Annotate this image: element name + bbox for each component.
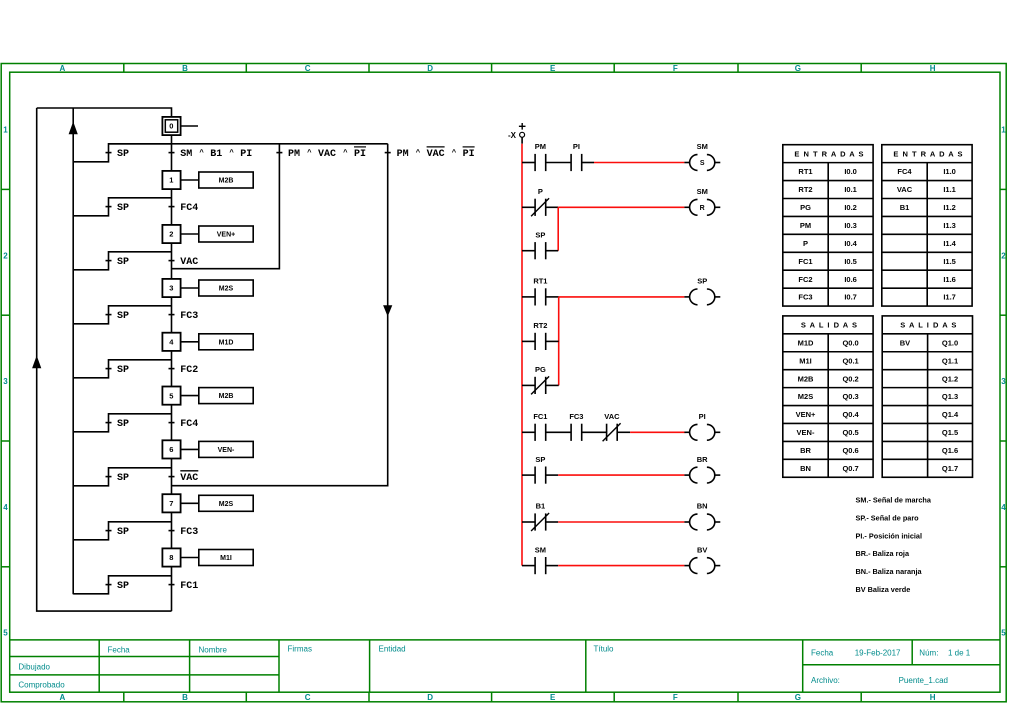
- contact FC3: [571, 424, 582, 441]
- svg-text:Q0.6: Q0.6: [842, 446, 858, 455]
- svg-text:E N T R A D A S: E N T R A D A S: [893, 149, 963, 158]
- wire rung 6 stub: [546, 384, 559, 386]
- wire rung 10 red: [558, 565, 684, 567]
- wire rung 7 red: [630, 431, 685, 433]
- svg-text:I1.5: I1.5: [943, 257, 956, 266]
- svg-text:FC3: FC3: [180, 527, 198, 538]
- svg-text:FC1: FC1: [180, 581, 198, 592]
- wire rung 8 red: [558, 474, 684, 476]
- contact PG: [531, 376, 549, 394]
- wire: left return line outer: [37, 108, 172, 611]
- svg-text:Comprobado: Comprobado: [18, 680, 65, 689]
- svg-text:Q0.1: Q0.1: [842, 356, 858, 365]
- wire rung 4 stub: [546, 296, 559, 298]
- svg-text:M2B: M2B: [219, 393, 234, 400]
- svg-text:BV Baliza verde: BV Baliza verde: [856, 585, 911, 594]
- svg-text:BN: BN: [800, 464, 811, 473]
- svg-text:SM: SM: [697, 142, 708, 151]
- svg-text:Fecha: Fecha: [108, 646, 131, 655]
- coil SM (R): [684, 199, 720, 215]
- wire rung 4 lead: [522, 296, 535, 298]
- svg-text:M1I: M1I: [220, 555, 232, 562]
- svg-text:M1D: M1D: [219, 339, 234, 346]
- wire: step 3 to action box: [181, 287, 199, 289]
- wire rung 5 lead: [522, 340, 535, 342]
- svg-text:PM: PM: [535, 142, 546, 151]
- svg-text:FC4: FC4: [180, 419, 198, 430]
- wire: SP loop branch 2: [73, 198, 171, 216]
- transition VAC (t7): [169, 471, 199, 484]
- svg-text:1: 1: [169, 176, 173, 185]
- transition SP (loop 3): [106, 257, 130, 268]
- svg-text:3: 3: [169, 284, 173, 293]
- svg-text:I0.0: I0.0: [844, 167, 857, 176]
- svg-text:BN.- Baliza naranja: BN.- Baliza naranja: [856, 567, 923, 576]
- svg-text:PM: PM: [397, 149, 409, 160]
- wire rung 7 lead: [522, 431, 535, 433]
- svg-text:Q1.3: Q1.3: [942, 392, 958, 401]
- wire: SP loop branch 5: [73, 360, 171, 378]
- wire: SP loop branch 3: [73, 252, 171, 270]
- svg-text:I0.4: I0.4: [844, 239, 857, 248]
- wire rung 2 red: [558, 206, 684, 208]
- svg-text:VAC: VAC: [897, 185, 913, 194]
- svg-text:I1.4: I1.4: [943, 239, 956, 248]
- svg-text:VEN+: VEN+: [796, 410, 816, 419]
- wire rung 9 red: [558, 521, 684, 523]
- transition SP (loop 2): [106, 203, 130, 214]
- svg-text:BV: BV: [697, 545, 707, 554]
- svg-text:I1.6: I1.6: [943, 275, 956, 284]
- svg-text:VAC: VAC: [318, 149, 336, 160]
- svg-text:2: 2: [1001, 251, 1006, 260]
- coil BV: [684, 558, 720, 574]
- svg-text:M2S: M2S: [219, 501, 234, 508]
- transition PM^VAC^!PI: [276, 147, 366, 160]
- transition SP (loop 4): [106, 311, 130, 322]
- svg-text:VAC: VAC: [180, 257, 198, 268]
- step 8: [162, 548, 180, 566]
- wire: step 5 to action box: [181, 395, 199, 397]
- wire: step 4 to action box: [181, 341, 199, 343]
- arrow up on inner return: [69, 122, 78, 135]
- svg-text:Q1.7: Q1.7: [942, 464, 958, 473]
- contact RT2: [535, 333, 546, 350]
- svg-text:7: 7: [169, 499, 173, 508]
- coil SM (S): [684, 155, 720, 171]
- transition VAC (t3): [169, 257, 199, 268]
- svg-text:Q1.0: Q1.0: [942, 338, 958, 347]
- svg-text:VAC: VAC: [180, 473, 198, 484]
- svg-text:S A L I D A S: S A L I D A S: [801, 321, 858, 330]
- contact SP: [535, 467, 546, 484]
- svg-text:Nombre: Nombre: [199, 646, 228, 655]
- svg-text:8: 8: [169, 553, 173, 562]
- svg-text:Q1.1: Q1.1: [942, 356, 958, 365]
- svg-text:VEN+: VEN+: [217, 232, 235, 239]
- svg-text:Firmas: Firmas: [288, 645, 312, 654]
- svg-text:Q1.4: Q1.4: [942, 410, 959, 419]
- svg-text:B1: B1: [536, 502, 546, 511]
- wire rung 9 lead: [522, 521, 535, 523]
- wire: step 6 to action box: [181, 448, 199, 450]
- svg-text:^: ^: [343, 148, 348, 157]
- svg-text:^: ^: [229, 148, 234, 157]
- svg-text:Q1.6: Q1.6: [942, 446, 958, 455]
- wire junction rung2-rung3 red: [557, 207, 559, 250]
- svg-text:Q0.4: Q0.4: [842, 410, 859, 419]
- svg-text:C: C: [305, 693, 311, 702]
- svg-text:FC1: FC1: [533, 412, 547, 421]
- action box M2S (step 3): [199, 280, 253, 296]
- svg-text:VEN-: VEN-: [218, 447, 235, 454]
- svg-text:M2S: M2S: [798, 392, 813, 401]
- svg-text:PG: PG: [535, 365, 546, 374]
- wire: SP loop branch 9: [73, 576, 171, 594]
- svg-text:SP: SP: [535, 455, 545, 464]
- svg-text:S A L I D A S: S A L I D A S: [900, 321, 957, 330]
- svg-text:Q0.5: Q0.5: [842, 428, 858, 437]
- svg-text:S: S: [700, 160, 705, 167]
- svg-text:B: B: [182, 64, 188, 73]
- step 5: [162, 387, 180, 405]
- svg-text:Fecha: Fecha: [811, 648, 834, 657]
- svg-text:RT1: RT1: [533, 277, 547, 286]
- wire: step 2 to action box: [181, 233, 199, 235]
- wire rung 3 lead: [522, 250, 535, 252]
- svg-text:3: 3: [3, 377, 8, 386]
- svg-text:FC3: FC3: [569, 412, 583, 421]
- wire rung 7 stub: [617, 431, 630, 433]
- transition FC3 (t8): [169, 527, 199, 538]
- wire rung 1 red: [594, 162, 684, 164]
- svg-text:SP.- Señal de paro: SP.- Señal de paro: [856, 513, 920, 522]
- svg-text:FC2: FC2: [798, 275, 812, 284]
- svg-text:SP: SP: [117, 203, 129, 214]
- svg-text:M1I: M1I: [799, 356, 812, 365]
- wire rung 7 a: [546, 431, 571, 433]
- svg-text:PM: PM: [800, 221, 811, 230]
- wire: SP loop branch 7: [73, 468, 171, 486]
- svg-text:D: D: [427, 64, 433, 73]
- svg-text:SP: SP: [117, 527, 129, 538]
- action box M1I (step 8): [199, 550, 253, 566]
- step 0: [162, 117, 180, 135]
- wire: skip branch PM^!VAC^!PI: [172, 144, 388, 486]
- svg-text:D: D: [427, 693, 433, 702]
- svg-text:I1.3: I1.3: [943, 221, 956, 230]
- svg-text:Archivo:: Archivo:: [811, 676, 840, 685]
- svg-text:I0.5: I0.5: [844, 257, 857, 266]
- step 7: [162, 494, 180, 512]
- svg-text:SM: SM: [180, 149, 192, 160]
- transition SP (loop 6): [106, 419, 130, 430]
- svg-text:SM: SM: [535, 545, 546, 554]
- svg-text:E: E: [550, 693, 556, 702]
- wire: SP loop branch 1: [73, 144, 171, 162]
- svg-text:I1.1: I1.1: [943, 185, 956, 194]
- svg-text:PI: PI: [463, 149, 475, 160]
- wire rung 8 lead: [522, 474, 535, 476]
- svg-text:1 de 1: 1 de 1: [948, 648, 971, 657]
- coil BR: [684, 467, 720, 483]
- svg-text:PM: PM: [288, 149, 300, 160]
- svg-text:19-Feb-2017: 19-Feb-2017: [855, 648, 901, 657]
- svg-text:^: ^: [416, 148, 421, 157]
- svg-text:I1.0: I1.0: [943, 167, 956, 176]
- wire: step 1 to action box: [181, 179, 199, 181]
- svg-text:FC4: FC4: [897, 167, 912, 176]
- transition SP (loop 8): [106, 527, 130, 538]
- svg-text:Q0.0: Q0.0: [842, 338, 858, 347]
- svg-text:I0.1: I0.1: [844, 185, 857, 194]
- svg-text:RT2: RT2: [533, 321, 547, 330]
- svg-text:Entidad: Entidad: [379, 645, 406, 654]
- svg-text:BV: BV: [900, 338, 910, 347]
- svg-text:M2B: M2B: [798, 374, 814, 383]
- wire rung 5 stub: [546, 340, 559, 342]
- svg-text:BR: BR: [800, 446, 811, 455]
- svg-text:P: P: [803, 239, 808, 248]
- svg-text:SP: SP: [117, 473, 129, 484]
- wire rung 7 b: [582, 431, 607, 433]
- svg-text:SP: SP: [117, 419, 129, 430]
- svg-text:Núm:: Núm:: [919, 648, 938, 657]
- contact VAC: [603, 423, 621, 441]
- wire rung 1 stub: [582, 162, 594, 164]
- contact RT1: [535, 288, 546, 305]
- svg-text:-X: -X: [508, 131, 517, 140]
- svg-text:^: ^: [199, 148, 204, 157]
- transition FC1 (t9): [169, 581, 199, 592]
- action box VEN+ (step 2): [199, 226, 253, 242]
- svg-text:SM.- Señal de marcha: SM.- Señal de marcha: [856, 496, 932, 505]
- svg-text:1: 1: [3, 126, 8, 135]
- svg-text:Q1.2: Q1.2: [942, 374, 958, 383]
- svg-text:Dibujado: Dibujado: [18, 662, 50, 671]
- svg-text:FC3: FC3: [798, 293, 812, 302]
- svg-text:FC3: FC3: [180, 311, 198, 322]
- transition FC4 (t2): [169, 203, 199, 214]
- I/O table SALIDAS-1: [783, 316, 873, 477]
- wire rung 1 lead: [522, 162, 535, 164]
- wire rung 9 stub: [546, 521, 559, 523]
- contact SP: [535, 242, 546, 259]
- wire: first transition row rail: [109, 143, 388, 145]
- svg-text:PI: PI: [699, 412, 706, 421]
- svg-text:M2S: M2S: [219, 286, 234, 293]
- svg-text:C: C: [305, 64, 311, 73]
- svg-text:M2B: M2B: [219, 178, 234, 185]
- svg-text:^: ^: [307, 148, 312, 157]
- svg-text:SP: SP: [697, 277, 707, 286]
- title block: [10, 640, 1000, 692]
- svg-text:4: 4: [3, 503, 8, 512]
- wire rung 3 stub: [546, 250, 559, 252]
- svg-text:PI: PI: [240, 149, 252, 160]
- I/O table ENTRADAS-1: [783, 145, 873, 306]
- transition SP (loop 7): [106, 473, 130, 484]
- svg-text:E N T R A D A S: E N T R A D A S: [794, 149, 864, 158]
- svg-text:Título: Título: [594, 645, 615, 654]
- svg-text:E: E: [550, 64, 556, 73]
- svg-text:PI.- Posición inicial: PI.- Posición inicial: [856, 531, 923, 540]
- transition SM^B1^PI: [169, 148, 253, 160]
- svg-text:H: H: [930, 693, 936, 702]
- contact PM: [535, 154, 546, 171]
- svg-text:SM: SM: [697, 187, 708, 196]
- contact FC1: [535, 424, 546, 441]
- arrow down on skip branch: [383, 305, 392, 316]
- wire: left return line inner: [72, 108, 74, 594]
- svg-text:PG: PG: [800, 203, 811, 212]
- action box M2S (step 7): [199, 495, 253, 511]
- I/O table SALIDAS-2: [882, 316, 972, 477]
- wire: step 8 to action box: [181, 557, 199, 559]
- svg-text:SP: SP: [117, 257, 129, 268]
- svg-text:H: H: [930, 64, 936, 73]
- svg-text:R: R: [700, 205, 705, 212]
- coil BN: [684, 514, 720, 530]
- contact B1: [531, 513, 549, 531]
- svg-text:RT2: RT2: [798, 185, 812, 194]
- svg-text:2: 2: [169, 230, 173, 239]
- svg-text:Puente_1.cad: Puente_1.cad: [899, 676, 948, 685]
- wire: SP loop branch 6: [73, 414, 171, 432]
- svg-text:I0.3: I0.3: [844, 221, 857, 230]
- wire rung 10 stub: [546, 565, 559, 567]
- svg-text:Q1.5: Q1.5: [942, 428, 958, 437]
- svg-text:VEN-: VEN-: [797, 428, 815, 437]
- svg-text:P: P: [538, 187, 543, 196]
- step 6: [162, 440, 180, 458]
- svg-text:Q0.2: Q0.2: [842, 374, 858, 383]
- svg-text:FC1: FC1: [798, 257, 812, 266]
- svg-text:I1.7: I1.7: [943, 293, 956, 302]
- svg-text:SP: SP: [117, 311, 129, 322]
- svg-text:I1.2: I1.2: [943, 203, 956, 212]
- svg-text:A: A: [60, 64, 66, 73]
- transition PM^!VAC^!PI: [385, 147, 475, 160]
- svg-text:I0.6: I0.6: [844, 275, 857, 284]
- legend signal abbreviations: [856, 496, 932, 595]
- transition FC2 (t5): [169, 365, 199, 376]
- svg-text:2: 2: [3, 251, 8, 260]
- svg-text:RT1: RT1: [798, 167, 812, 176]
- svg-text:F: F: [673, 693, 678, 702]
- coil PI: [684, 424, 720, 440]
- svg-text:BN: BN: [697, 502, 708, 511]
- svg-text:SP: SP: [117, 365, 129, 376]
- step 3: [162, 279, 180, 297]
- svg-text:B1: B1: [900, 203, 910, 212]
- transition SP (loop 5): [106, 365, 130, 376]
- svg-text:5: 5: [1001, 629, 1006, 638]
- wire: SP loop branch 8: [73, 522, 171, 540]
- svg-text:G: G: [795, 693, 801, 702]
- svg-text:BR: BR: [697, 455, 708, 464]
- svg-text:0: 0: [169, 122, 173, 131]
- svg-text:PI: PI: [354, 149, 366, 160]
- svg-text:SP: SP: [117, 149, 129, 160]
- wire rung 8 stub: [546, 474, 559, 476]
- svg-text:SP: SP: [535, 230, 545, 239]
- transition FC3 (t4): [169, 311, 199, 322]
- wire: SP loop branch 4: [73, 306, 171, 324]
- wire rung 1: [546, 162, 571, 164]
- svg-text:3: 3: [1001, 377, 1006, 386]
- wire rung 2 lead: [522, 206, 535, 208]
- svg-text:5: 5: [169, 391, 173, 400]
- power rail -X: [508, 123, 526, 566]
- svg-text:BR.- Baliza roja: BR.- Baliza roja: [856, 549, 910, 558]
- wire: step 7 to action box: [181, 502, 199, 504]
- wire rung 6 lead: [522, 384, 535, 386]
- wire rung 10 lead: [522, 565, 535, 567]
- svg-text:F: F: [673, 64, 678, 73]
- wire junction rung4-rung6 red: [558, 297, 560, 386]
- wire rung 2 stub: [546, 206, 559, 208]
- svg-text:4: 4: [1001, 503, 1006, 512]
- svg-text:^: ^: [452, 148, 457, 157]
- svg-text:SP: SP: [117, 581, 129, 592]
- svg-text:M1D: M1D: [798, 338, 814, 347]
- step 1: [162, 171, 180, 189]
- wire: step 0 stub: [181, 125, 198, 127]
- svg-text:VAC: VAC: [604, 412, 620, 421]
- svg-text:Q0.7: Q0.7: [842, 464, 858, 473]
- step 2: [162, 225, 180, 243]
- action box M2B (step 5): [199, 388, 253, 404]
- wire: skip branch PM^VAC^!PI: [172, 144, 280, 269]
- svg-text:G: G: [795, 64, 801, 73]
- action box M1D (step 4): [199, 334, 253, 350]
- svg-text:Q0.3: Q0.3: [842, 392, 858, 401]
- wire: grafcet top header line: [37, 108, 172, 117]
- I/O table ENTRADAS-2: [882, 145, 972, 306]
- svg-text:VAC: VAC: [427, 149, 445, 160]
- svg-text:A: A: [60, 693, 66, 702]
- svg-text:B1: B1: [210, 149, 222, 160]
- svg-text:1: 1: [1001, 126, 1006, 135]
- svg-text:5: 5: [3, 629, 8, 638]
- svg-text:PI: PI: [573, 142, 580, 151]
- transition FC4 (t6): [169, 419, 199, 430]
- transition SP (loop 9): [106, 581, 130, 592]
- step 4: [162, 333, 180, 351]
- svg-text:I0.2: I0.2: [844, 203, 857, 212]
- contact PI: [571, 154, 582, 171]
- wire rung 4 red: [559, 296, 685, 298]
- coil SP: [684, 289, 720, 305]
- arrow up on outer return: [32, 356, 41, 369]
- action box VEN- (step 6): [199, 441, 253, 457]
- svg-text:B: B: [182, 693, 188, 702]
- transition SP (loop 1): [106, 149, 130, 160]
- svg-text:I0.7: I0.7: [844, 293, 857, 302]
- action box M2B (step 1): [199, 172, 253, 188]
- wire: main grafcet column: [171, 133, 173, 611]
- svg-text:6: 6: [169, 445, 173, 454]
- svg-text:FC4: FC4: [180, 203, 198, 214]
- contact SM: [535, 557, 546, 574]
- svg-text:FC2: FC2: [180, 365, 198, 376]
- contact P: [531, 198, 549, 216]
